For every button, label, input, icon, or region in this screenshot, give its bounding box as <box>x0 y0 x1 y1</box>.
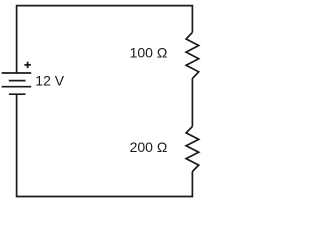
svg-text:12 V: 12 V <box>35 73 64 89</box>
svg-text:200 Ω: 200 Ω <box>130 139 168 155</box>
svg-text:100 Ω: 100 Ω <box>130 44 168 60</box>
